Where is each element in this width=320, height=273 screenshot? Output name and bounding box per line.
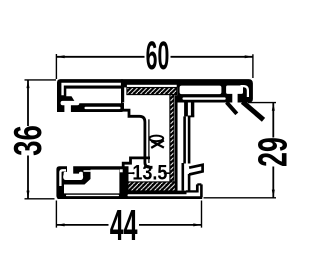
- foot upstand left: [196, 184, 199, 192]
- dimension 60: arrows: [56, 55, 253, 58]
- white: bottom arm chamber: [64, 170, 119, 194]
- steel core hatch: top band: [127, 88, 177, 191]
- white notch at arm/box junction: [120, 169, 123, 172]
- central mouth top lip staircase: [123, 103, 153, 167]
- right web right line lower: [188, 116, 191, 163]
- profile top arm: right/middle block: [122, 79, 253, 102]
- white: bottom T-slot stem: [67, 165, 73, 175]
- dimension 36: arrows: [27, 80, 30, 199]
- white: central mouth opening: [124, 87, 177, 103]
- dimension 44: dim line: [56, 224, 201, 226]
- white slot in bottom lip: [129, 165, 136, 172]
- dimension 60: extension lines: [56, 54, 253, 79]
- right web right line upper: [191, 101, 194, 116]
- web jog: [188, 115, 194, 117]
- white: seal slit: [183, 97, 226, 99]
- profile bottom edge: [58, 196, 203, 199]
- screw head: [149, 136, 163, 142]
- white: right chamber: [180, 86, 222, 95]
- white: top T-slot bar: [61, 101, 80, 105]
- dimension 29: dim line: [272, 103, 274, 198]
- white: bottom arm inner contour gap: [60, 170, 66, 186]
- dimension 44: extension lines: [56, 201, 201, 228]
- central mouth bottom lip staircase: [123, 158, 150, 171]
- dimension 29: extension lines: [204, 103, 277, 198]
- foot upstand top: [197, 183, 201, 185]
- steel core hatch: right wall: [170, 95, 174, 183]
- profile bottom arm block: [56, 166, 128, 199]
- dimension 44: arrows: [56, 223, 201, 226]
- web below barb: [188, 174, 191, 191]
- flipper gasket 2: [243, 102, 264, 120]
- white: slit above bottom edge, bottom arm: [66, 195, 119, 197]
- dimension 36: dim line: [27, 80, 29, 199]
- white: top T-slot stem: [64, 104, 71, 112]
- svg-text:29: 29: [251, 137, 296, 167]
- profile bottom mid black band: [127, 191, 187, 195]
- white: gap above steel top band: [127, 85, 177, 88]
- central box right wall: [175, 95, 178, 190]
- white: gasket groove stem opening: [232, 93, 237, 103]
- svg-text:60: 60: [146, 33, 170, 78]
- dimension 29: arrows: [272, 103, 275, 198]
- profile top arm: left block: [57, 79, 123, 112]
- inner thin wall line: [148, 119, 150, 163]
- dimension 13.5: stubs and arrows: [128, 172, 170, 174]
- white: left chamber: [66, 89, 121, 104]
- barb snap hook: [189, 165, 203, 175]
- svg-text:13.5: 13.5: [132, 161, 167, 185]
- white: top-left inner gap (L-shape): [61, 83, 121, 96]
- white: gasket groove bar: [226, 86, 243, 94]
- dimension 60: dim line: [56, 56, 253, 58]
- foot top line: [186, 190, 197, 192]
- white: slit above bottom edge, left arm: [85, 107, 121, 109]
- steel core hatch: bottom band: [128, 182, 177, 191]
- right web left line: [184, 101, 188, 117]
- screw cross: [151, 140, 164, 148]
- foot right edge: [200, 184, 203, 197]
- white: bottom T-slot bar: [63, 174, 83, 180]
- flipper gasket 1: [227, 102, 237, 114]
- white slit below central PVC: [128, 194, 190, 196]
- dimension 36: extension lines: [25, 80, 57, 199]
- svg-text:44: 44: [110, 202, 138, 250]
- white: inner gap at top-right corner: [241, 86, 248, 97]
- svg-text:36: 36: [7, 125, 50, 156]
